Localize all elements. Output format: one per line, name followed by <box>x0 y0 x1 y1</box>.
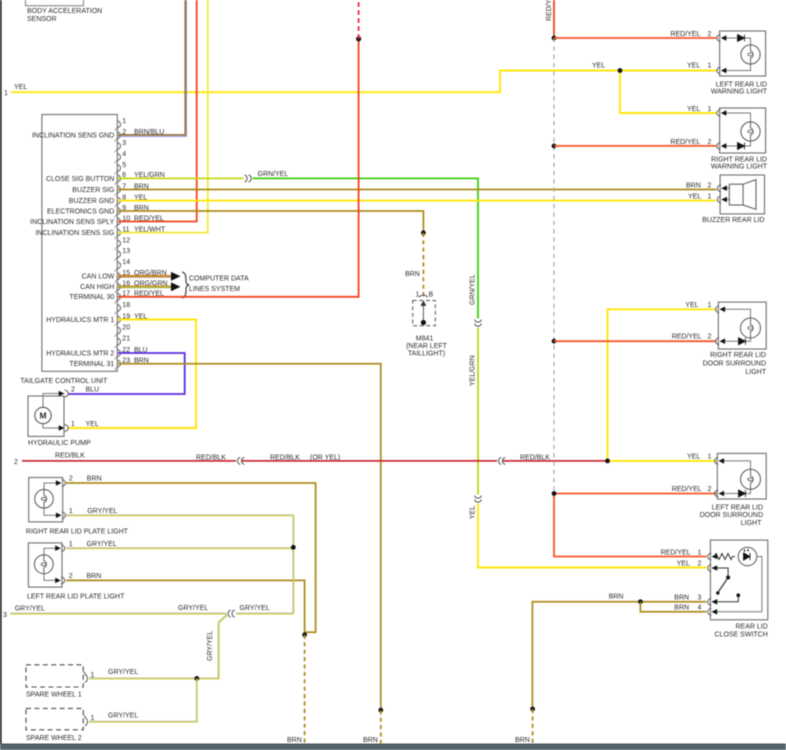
wire BLU pin 22 to hydraulic pump pin 2 <box>68 353 185 394</box>
tailgate control unit box <box>42 115 117 372</box>
wire RED/YEL branch to left surround light pin 2 <box>554 493 717 495</box>
wire RED/YEL pin 10 up to top <box>118 0 197 222</box>
svg-text:BRN: BRN <box>674 604 689 611</box>
svg-text:13: 13 <box>122 248 130 255</box>
brace computer data lines system <box>182 272 189 298</box>
wire BRN pin 7 to buzzer <box>118 189 717 191</box>
hydraulic pump box <box>28 396 64 436</box>
wire BRN dashed to bottom <box>532 709 534 744</box>
svg-text:4: 4 <box>122 151 126 158</box>
svg-text:1: 1 <box>708 453 712 460</box>
svg-text:(NEAR LEFT: (NEAR LEFT <box>406 343 448 350</box>
svg-text:RED/BLK: RED/BLK <box>270 454 300 461</box>
svg-text:1: 1 <box>4 90 8 97</box>
svg-text:BUZZER GND: BUZZER GND <box>69 198 115 205</box>
svg-text:20: 20 <box>122 324 130 331</box>
svg-text:ELECTRONICS GND: ELECTRONICS GND <box>47 208 114 215</box>
svg-text:RED/BLK: RED/BLK <box>55 453 85 460</box>
control unit pins 1-23 (arcs + numbers) <box>115 121 121 370</box>
svg-text:1: 1 <box>416 292 420 299</box>
svg-text:TAILLIGHT): TAILLIGHT) <box>408 351 445 358</box>
svg-text:GRY/YEL: GRY/YEL <box>178 605 208 612</box>
svg-text:1: 1 <box>708 193 712 200</box>
svg-text:2: 2 <box>69 573 73 580</box>
wire YEL vertical from right surround light pin 1 <box>608 309 717 461</box>
inline connector on RED/BLK (right) <box>499 457 506 464</box>
wire YEL from junction to left surround light pin 1 <box>608 460 717 462</box>
svg-text:1: 1 <box>708 106 712 113</box>
lamp left rear lid warning light <box>717 31 766 76</box>
switch rear lid close switch <box>708 540 768 620</box>
svg-text:GRY/YEL: GRY/YEL <box>87 541 117 548</box>
arrow pin 16 <box>171 282 181 291</box>
svg-text:GRN/YEL: GRN/YEL <box>470 274 477 305</box>
node BRN junction <box>638 599 643 604</box>
inline connector on pin6 wire <box>245 175 252 182</box>
svg-text:HYDRAULICS MTR 1: HYDRAULICS MTR 1 <box>46 317 114 324</box>
svg-text:3: 3 <box>698 594 702 601</box>
inline connector on RED/BLK (left) <box>238 457 245 464</box>
svg-text:1: 1 <box>708 302 712 309</box>
node dot top <box>552 36 557 41</box>
svg-text:SPARE WHEEL 2: SPARE WHEEL 2 <box>26 735 82 742</box>
svg-text:5: 5 <box>122 162 126 169</box>
wire BRN close switch pins 3/4 to ground run <box>532 602 706 709</box>
pin arcs close switch <box>708 553 712 560</box>
svg-text:BRN: BRN <box>609 593 624 600</box>
svg-text:COMPUTER DATA: COMPUTER DATA <box>189 276 249 283</box>
svg-text:HYDRAULIC PUMP: HYDRAULIC PUMP <box>28 440 91 447</box>
arrow pin 15 <box>171 272 181 281</box>
lamp right rear lid door surround light <box>716 302 767 349</box>
svg-text:3: 3 <box>3 612 7 619</box>
svg-text:RED/BLK: RED/BLK <box>196 454 226 461</box>
wire YEL/GRN vertical mid segment <box>477 328 479 495</box>
svg-text:CLOSE SIG BUTTON: CLOSE SIG BUTTON <box>46 176 114 183</box>
svg-text:YEL: YEL <box>687 63 700 70</box>
body acceleration sensor (box cut off at top) <box>26 0 84 6</box>
svg-text:BLU: BLU <box>86 387 100 394</box>
svg-text:RED/YEL: RED/YEL <box>661 550 691 557</box>
svg-text:RIGHT REAR LID: RIGHT REAR LID <box>710 352 766 359</box>
svg-text:2: 2 <box>708 334 712 341</box>
wire RED/YEL vertical right column <box>553 0 555 38</box>
wire RED/YEL branch to right surround light pin 2 <box>554 340 717 342</box>
switch lever from pin 2 <box>712 568 728 577</box>
svg-text:GRY/YEL: GRY/YEL <box>108 669 138 676</box>
svg-text:RED/YEL: RED/YEL <box>546 0 553 21</box>
svg-text:YEL: YEL <box>592 63 605 70</box>
svg-text:LIGHT: LIGHT <box>741 520 762 527</box>
svg-text:2: 2 <box>69 476 73 483</box>
svg-text:M: M <box>39 411 46 421</box>
lamp right rear lid warning light <box>717 108 766 153</box>
svg-text:WARNING LIGHT: WARNING LIGHT <box>711 89 768 96</box>
svg-text:INCLINATION SENS SPLY: INCLINATION SENS SPLY <box>30 219 114 226</box>
svg-text:YEL/GRN: YEL/GRN <box>470 355 477 386</box>
wire RED dashed to top <box>358 0 360 39</box>
svg-text:BRN: BRN <box>287 737 302 744</box>
wire BRN pin 23 terminal 31 down to bottom <box>118 364 381 711</box>
node BRN splice bottom mid <box>378 708 383 713</box>
svg-text:BRN: BRN <box>515 737 530 744</box>
svg-text:TERMINAL 30: TERMINAL 30 <box>69 294 114 301</box>
wire RED/YEL down to close switch pin 1 <box>554 494 707 557</box>
svg-text:1: 1 <box>122 118 126 125</box>
svg-text:RED/YEL: RED/YEL <box>670 139 700 146</box>
wire BRN left plate light pin 2 <box>66 580 305 634</box>
inline connector on vertical run (upper) <box>475 320 482 327</box>
svg-text:DOOR SURROUND: DOOR SURROUND <box>703 360 766 367</box>
svg-text:GRY/YEL: GRY/YEL <box>240 605 270 612</box>
wire BRN dashed down to M841 <box>422 233 424 299</box>
connector spare wheel 2 <box>26 708 83 729</box>
svg-text:TAILGATE CONTROL UNIT: TAILGATE CONTROL UNIT <box>20 378 108 385</box>
svg-text:18: 18 <box>122 302 130 309</box>
svg-text:HYDRAULICS MTR 2: HYDRAULICS MTR 2 <box>46 350 114 357</box>
svg-text:1: 1 <box>708 63 712 70</box>
svg-text:2: 2 <box>708 139 712 146</box>
svg-text:GRY/YEL: GRY/YEL <box>108 712 138 719</box>
wire YEL pin 8 to buzzer <box>118 200 717 202</box>
svg-text:2: 2 <box>698 561 702 568</box>
wire BRN/BLU pin 2 up to top <box>118 0 185 135</box>
node dot 4 <box>552 491 557 496</box>
node BRN splice <box>421 230 426 235</box>
wire YEL pin 19 to hydraulic pump pin 1 <box>68 320 196 429</box>
inline connector on vertical run (lower) <box>475 496 482 503</box>
svg-text:GRY/YEL: GRY/YEL <box>207 631 214 661</box>
node BRN plate splice <box>302 632 307 637</box>
svg-text:4: 4 <box>698 604 702 611</box>
svg-text:BRN: BRN <box>363 737 378 744</box>
wire RED/BLK main (net 2) <box>22 460 236 462</box>
svg-text:YEL: YEL <box>677 561 690 568</box>
svg-text:LEFT REAR LID: LEFT REAR LID <box>716 81 767 88</box>
wire BRN dashed to bottom left <box>304 635 306 744</box>
svg-text:BRN: BRN <box>87 573 102 580</box>
svg-text:LIGHT: LIGHT <box>745 369 766 376</box>
svg-text:GRN/YEL: GRN/YEL <box>258 171 289 178</box>
lamp right rear lid plate light <box>29 478 66 522</box>
lamp left rear lid plate light <box>28 543 64 587</box>
node spare wheel junction <box>194 676 199 681</box>
svg-text:CAN HIGH: CAN HIGH <box>80 284 114 291</box>
wire RED/YEL pin 17 terminal 30 <box>118 39 359 297</box>
svg-text:B: B <box>429 292 434 299</box>
svg-text:2: 2 <box>708 182 712 189</box>
svg-text:YEL: YEL <box>688 193 701 200</box>
wire ORG/GRN pin 16 stub <box>118 285 172 287</box>
wire BRN dashed to bottom edge <box>380 710 382 744</box>
svg-text:YEL: YEL <box>687 453 700 460</box>
wire YEL branch to right warning light <box>620 71 717 114</box>
node RED/BLK to YEL junction <box>605 459 610 464</box>
svg-text:2: 2 <box>14 459 18 466</box>
wire GRY/YEL diagonal down to spare wheels <box>89 615 227 679</box>
wire GRY/YEL spare wheel 2 branch <box>89 678 196 721</box>
wire ORG/BRN pin 15 stub <box>118 275 172 277</box>
wire RED/YEL branch to right warning light pin 2 <box>554 145 717 147</box>
svg-text:YEL: YEL <box>687 106 700 113</box>
wire YEL vertical to close switch pin 2 <box>478 504 707 568</box>
svg-text:DOOR SURROUND: DOOR SURROUND <box>700 512 763 519</box>
grey dashed run down <box>553 38 555 494</box>
node GRY/YEL junction <box>291 545 296 550</box>
svg-text:BRN: BRN <box>674 594 689 601</box>
node dot 2 <box>552 144 557 149</box>
svg-text:1: 1 <box>69 508 73 515</box>
hydraulic pump internal leads <box>43 394 64 429</box>
svg-text:CLOSE SWITCH: CLOSE SWITCH <box>715 631 768 638</box>
svg-text:BRN: BRN <box>87 476 102 483</box>
svg-text:INCLINATION SENS SIG: INCLINATION SENS SIG <box>35 230 114 237</box>
svg-text:YEL: YEL <box>685 302 698 309</box>
svg-text:GRY/YEL: GRY/YEL <box>87 508 117 515</box>
svg-text:RIGHT REAR LID: RIGHT REAR LID <box>711 156 767 163</box>
wire GRY/YEL right plate light pin 1 <box>66 515 293 547</box>
svg-text:LINES SYSTEM: LINES SYSTEM <box>189 286 240 293</box>
svg-text:YEL: YEL <box>14 84 27 91</box>
svg-text:YEL: YEL <box>470 506 477 519</box>
pump pin 2 arc+arrow <box>65 390 69 397</box>
internal wire from LED to pin 4 <box>712 557 762 612</box>
svg-text:BRN: BRN <box>686 182 701 189</box>
lamp left rear lid door surround light <box>715 453 767 499</box>
svg-text:GRY/YEL: GRY/YEL <box>15 605 45 612</box>
svg-text:INCLINATION SENS GND: INCLINATION SENS GND <box>32 133 114 140</box>
svg-text:YEL: YEL <box>86 421 99 428</box>
svg-text:1: 1 <box>91 672 95 679</box>
svg-text:SENSOR: SENSOR <box>27 16 57 23</box>
node yellow junction <box>618 68 623 73</box>
svg-text:RED/YEL: RED/YEL <box>672 334 702 341</box>
svg-text:BODY ACCELERATION: BODY ACCELERATION <box>27 8 102 15</box>
svg-text:14: 14 <box>122 259 130 266</box>
connector M841 (near left taillight) <box>413 295 436 326</box>
svg-text:CAN LOW: CAN LOW <box>82 274 115 281</box>
svg-text:2: 2 <box>708 486 712 493</box>
svg-text:REAR LID: REAR LID <box>736 624 768 631</box>
svg-text:WARNING LIGHT: WARNING LIGHT <box>711 164 768 171</box>
svg-text:1: 1 <box>71 421 75 428</box>
svg-text:SPARE WHEEL 1: SPARE WHEEL 1 <box>26 691 82 698</box>
wire GRN/YEL from connector to vertical run <box>253 178 479 318</box>
motor symbol M <box>35 407 51 423</box>
svg-text:RIGHT REAR LID PLATE LIGHT: RIGHT REAR LID PLATE LIGHT <box>26 529 129 536</box>
svg-text:1: 1 <box>69 541 73 548</box>
wire YEL/GRN pin 6 to inline connector <box>118 177 244 179</box>
page left border <box>0 0 2 744</box>
wire GRY/YEL net 3 horizontal <box>10 612 293 614</box>
wire YEL/WHT pin 11 up to top <box>118 0 208 233</box>
svg-text:1: 1 <box>91 715 95 722</box>
bottom status bar <box>0 744 786 750</box>
buzzer rear lid <box>717 175 764 214</box>
svg-text:2: 2 <box>708 31 712 38</box>
connector spare wheel 1 <box>26 665 83 687</box>
svg-text:RED/YEL: RED/YEL <box>670 31 700 38</box>
svg-text:M841: M841 <box>416 336 434 343</box>
svg-text:TERMINAL 31: TERMINAL 31 <box>69 361 114 368</box>
svg-text:BUZZER SIG: BUZZER SIG <box>72 187 114 194</box>
wire BRN right plate light pin 2 <box>66 483 316 632</box>
svg-text:LEFT REAR LID PLATE LIGHT: LEFT REAR LID PLATE LIGHT <box>27 593 125 600</box>
svg-text:(OR YEL): (OR YEL) <box>310 454 340 461</box>
svg-text:RED/BLK: RED/BLK <box>520 454 550 461</box>
LED circle with diode <box>738 547 757 566</box>
wire BRN pin 9 to M841 <box>118 211 423 233</box>
wire GRY/YEL junction down to net 3 <box>292 547 294 613</box>
pump pin 1 arc+arrow <box>65 425 69 432</box>
wire RED/YEL branch to left warning light pin 2 <box>554 37 717 39</box>
svg-text:BUZZER REAR LID: BUZZER REAR LID <box>702 217 764 224</box>
inline connector on net 3 <box>228 610 235 617</box>
svg-text:3: 3 <box>122 140 126 147</box>
wire GRY/YEL left plate light pin 1 <box>66 547 293 549</box>
svg-text:BRN: BRN <box>405 271 420 278</box>
wire BRN branch to pin 4 <box>640 602 706 612</box>
svg-text:2: 2 <box>71 387 75 394</box>
fixed contact pin 3 <box>712 597 738 602</box>
svg-text:RED/YEL: RED/YEL <box>672 486 702 493</box>
node dot 3 <box>552 339 557 344</box>
wire YEL main horizontal (net 1) <box>11 71 717 93</box>
node red splice top <box>356 36 361 41</box>
svg-text:1: 1 <box>698 550 702 557</box>
node BRN splice <box>530 707 535 712</box>
svg-text:LEFT REAR LID: LEFT REAR LID <box>712 505 763 512</box>
svg-text:21: 21 <box>122 336 130 343</box>
svg-text:12: 12 <box>122 237 130 244</box>
resistor zigzag pin 1 <box>712 554 735 560</box>
